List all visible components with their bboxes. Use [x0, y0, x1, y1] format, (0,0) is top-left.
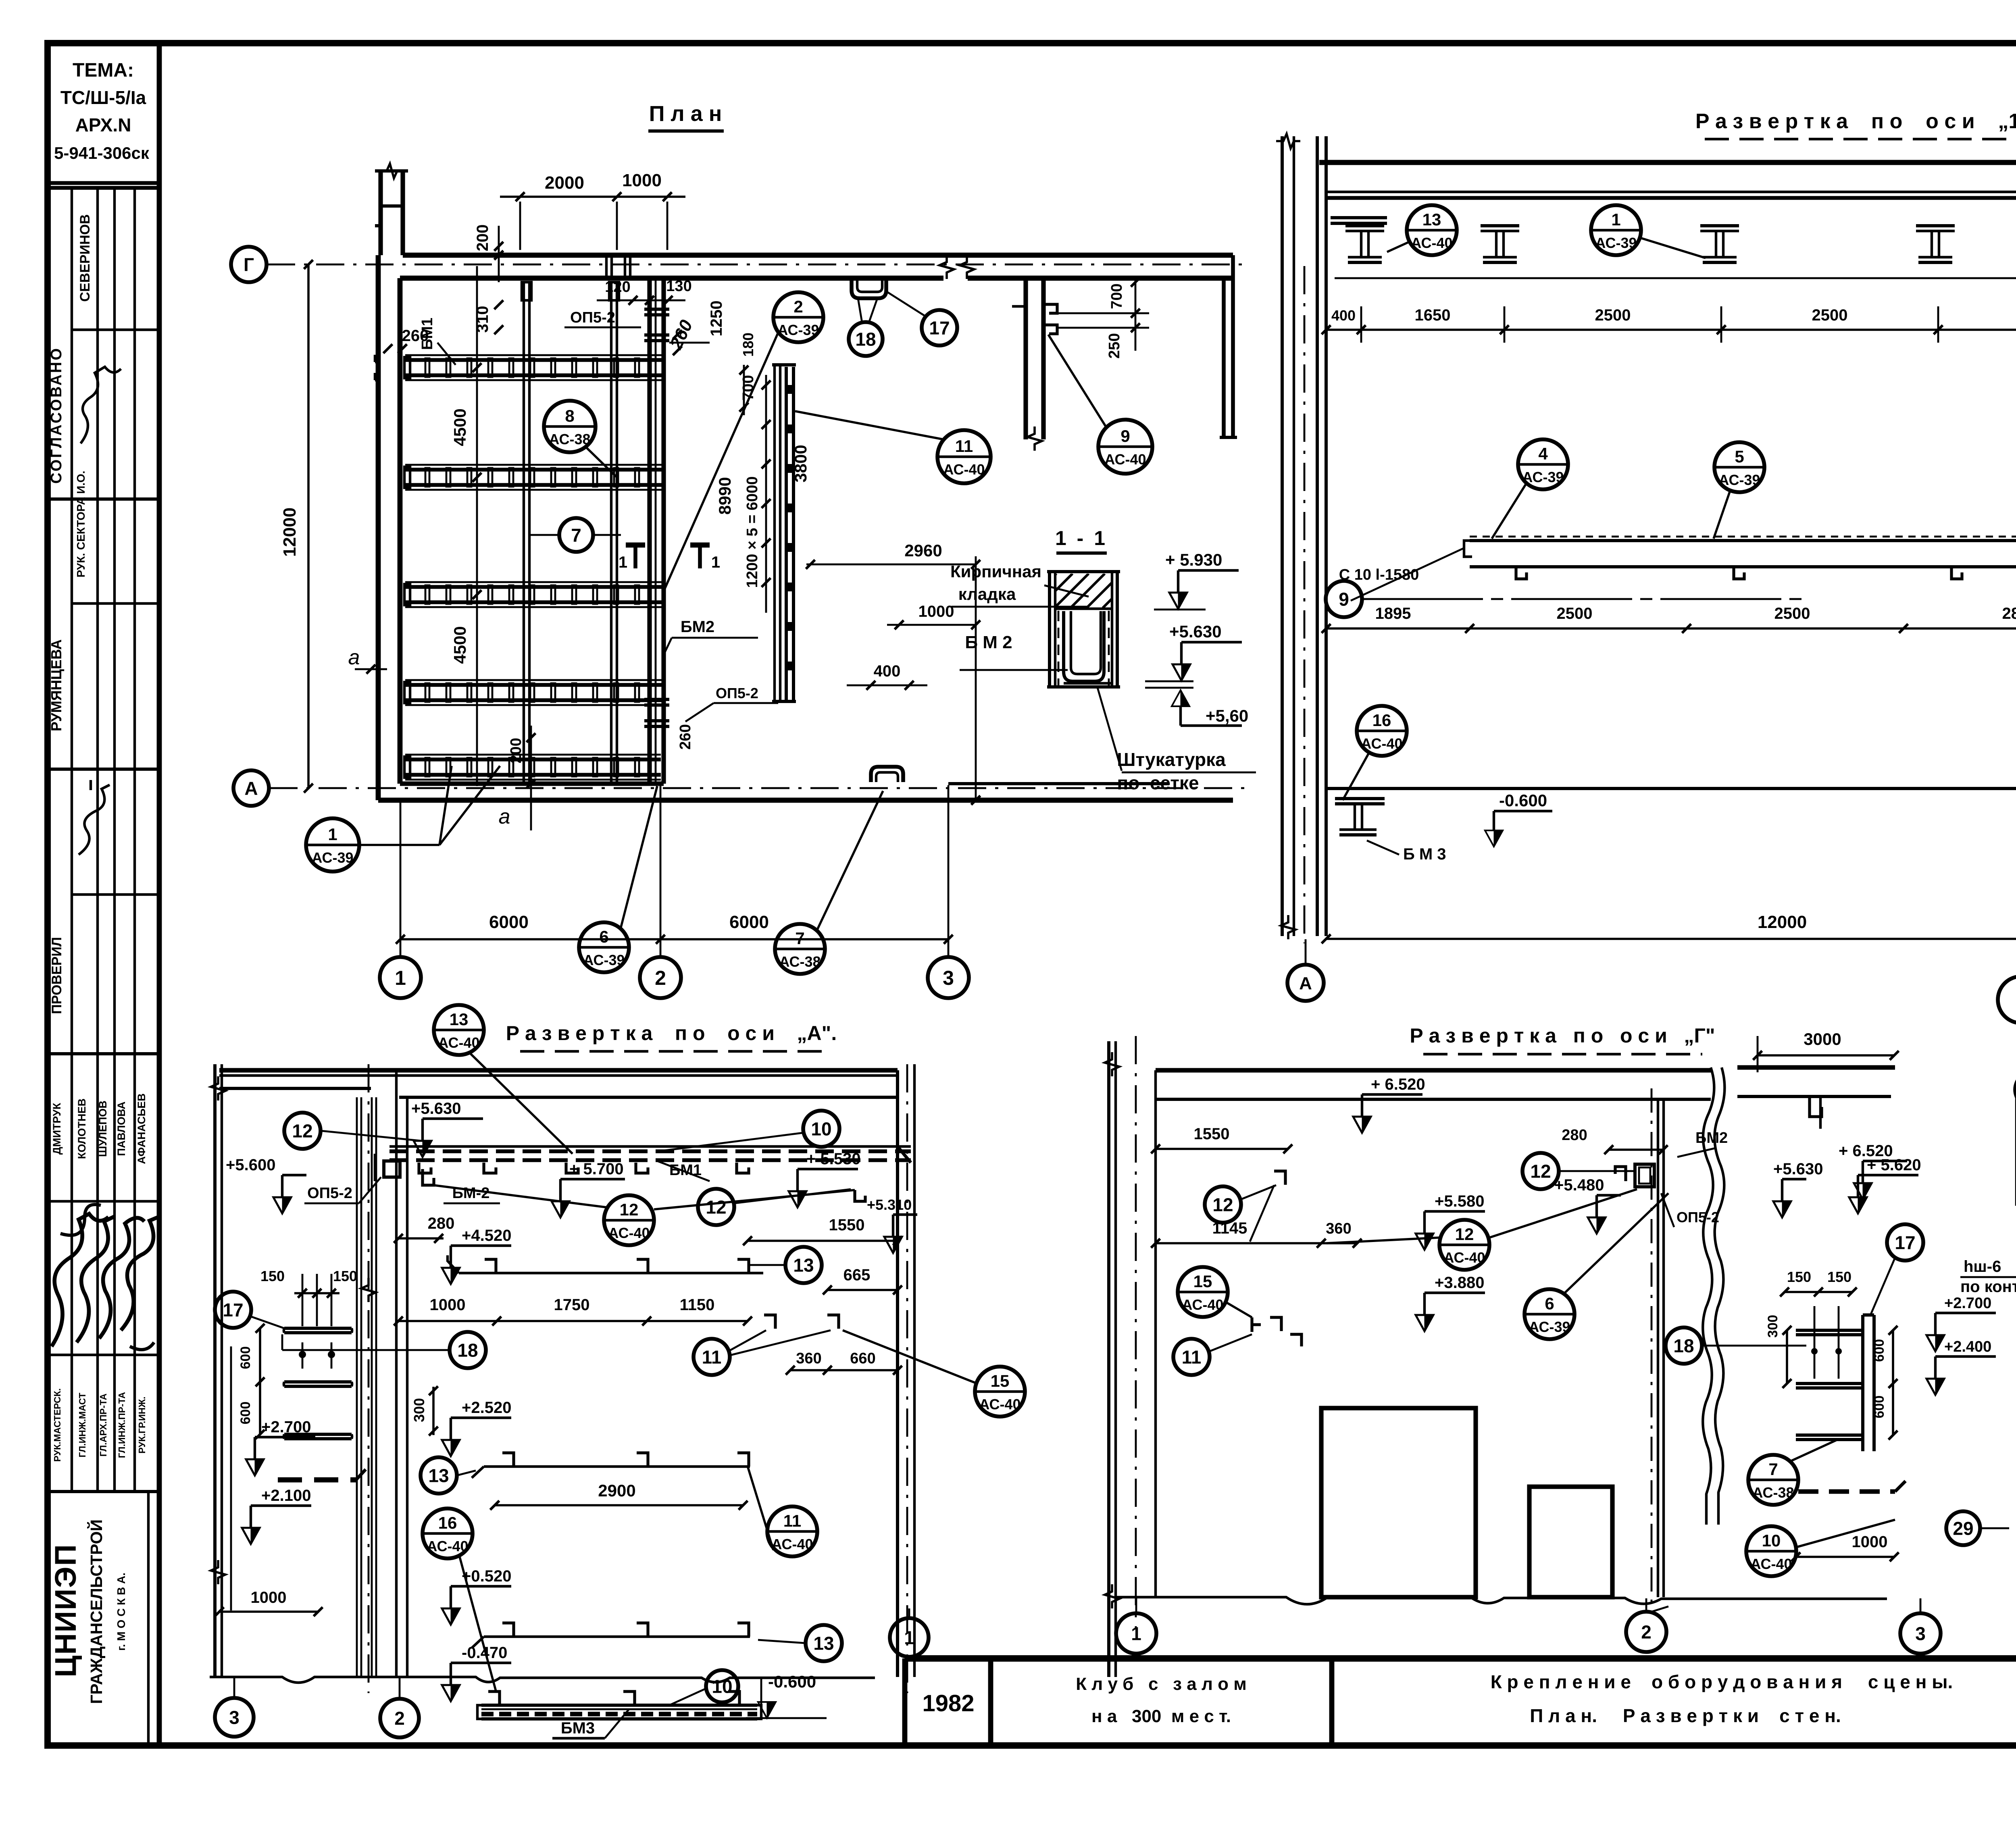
elevation-A channels row 4 — [484, 1635, 750, 1638]
svg-text:665: 665 — [843, 1266, 871, 1284]
elevation-G label circle 11 — [1173, 1339, 1210, 1375]
svg-text:5: 5 — [1735, 447, 1744, 466]
svg-text:+5.630: +5.630 — [411, 1100, 461, 1117]
plan dim 310 — [494, 300, 503, 309]
elevation-G БМ2 square — [1635, 1164, 1654, 1187]
svg-text:1895: 1895 — [1375, 605, 1411, 622]
elevation-G level +5.620 — [1849, 1197, 1867, 1213]
svg-text:+5,60: +5,60 — [1206, 706, 1248, 725]
elevation-A label circle 11 АС-40 lower — [767, 1506, 817, 1556]
svg-text:1000: 1000 — [430, 1296, 466, 1314]
elevation-1 level -0.600 — [1485, 830, 1503, 847]
plan dim 2000 1000 — [500, 196, 685, 198]
elevation-A channels row top — [423, 1169, 434, 1185]
elevation-A channels pair right — [764, 1315, 775, 1329]
svg-text:РУК. СЕКТОРА И.О.: РУК. СЕКТОРА И.О. — [75, 471, 87, 578]
svg-text:АС-40: АС-40 — [608, 1225, 650, 1241]
svg-text:Б М 3: Б М 3 — [1403, 845, 1446, 863]
svg-text:8990: 8990 — [715, 477, 734, 514]
svg-text:АС-40: АС-40 — [979, 1396, 1020, 1413]
svg-text:29: 29 — [1953, 1518, 1973, 1539]
svg-text:9: 9 — [1339, 589, 1349, 610]
svg-text:2500: 2500 — [1595, 306, 1631, 324]
elevation-A top beam lines — [219, 1068, 898, 1072]
elevation-A level +5.700 — [552, 1201, 569, 1217]
svg-text:300: 300 — [1765, 1315, 1781, 1338]
svg-text:12000: 12000 — [1758, 912, 1807, 932]
svg-text:ТС/Ш-5/Iа: ТС/Ш-5/Iа — [60, 87, 146, 108]
elevation-A dim chain 1000 1750 1150 — [398, 1320, 748, 1322]
plan grid circle 2 — [640, 957, 681, 998]
svg-text:3: 3 — [229, 1707, 240, 1728]
svg-text:ОП5-2: ОП5-2 — [716, 685, 758, 701]
elevation-A left anchor plates — [284, 1327, 352, 1330]
svg-text:ДМИТРУК: ДМИТРУК — [51, 1103, 63, 1155]
elevation-G grid circle 1 — [1116, 1613, 1156, 1654]
plan thin grid line with 4500 dims — [476, 266, 478, 786]
svg-text:15: 15 — [1193, 1272, 1212, 1291]
elevation-A level -0.470 — [442, 1685, 460, 1701]
svg-text:150: 150 — [1787, 1269, 1811, 1285]
elevation-G label circle 18 right — [1666, 1327, 1702, 1364]
elevation-A label circle 13 row2 — [785, 1247, 822, 1283]
svg-text:1: 1 — [711, 553, 720, 571]
svg-text:К р е п л е н и е о б о р у: К р е п л е н и е о б о р у д о в а н и … — [1491, 1671, 1953, 1692]
plan wall end verticals right — [1222, 278, 1226, 437]
elevation-G label circle 10 АС-40 right — [1746, 1526, 1796, 1576]
plan label circle 1 АС-39 — [306, 818, 359, 872]
svg-text:10: 10 — [1762, 1531, 1781, 1550]
plan T-wall channels — [1043, 304, 1057, 313]
elevation-A level +5.600 — [273, 1197, 291, 1213]
elevation-G label circle 17 right — [1887, 1224, 1923, 1261]
svg-text:по сетке: по сетке — [1117, 772, 1199, 793]
svg-text:1550: 1550 — [829, 1216, 865, 1234]
svg-text:1000: 1000 — [1852, 1533, 1888, 1551]
elevation-G label circle 7 АС-38 — [1748, 1455, 1798, 1505]
elevation-A label circle 18 — [450, 1332, 486, 1368]
svg-text:СЕВЕРИНОВ: СЕВЕРИНОВ — [77, 214, 93, 302]
svg-text:1: 1 — [328, 825, 337, 844]
svg-text:ОП5-2: ОП5-2 — [570, 309, 615, 326]
svg-text:1: 1 — [1611, 210, 1620, 229]
plan window ОП5-2 upper in wall 2 — [644, 308, 669, 311]
plan middle wall axis 2 — [647, 279, 652, 784]
svg-text:ЦНИИЭП: ЦНИИЭП — [49, 1544, 82, 1677]
svg-text:200: 200 — [508, 738, 525, 763]
svg-text:6: 6 — [599, 927, 608, 946]
svg-text:+2.700: +2.700 — [1944, 1295, 1991, 1312]
elevation-1 label circle 4 АС-39 — [1518, 439, 1568, 489]
svg-text:П л а н: П л а н — [649, 102, 722, 126]
elevation-A level +4.520 — [442, 1268, 460, 1284]
elevation-G level +2.700 right — [1926, 1335, 1944, 1351]
plan dim 700 250 right — [1135, 278, 1137, 351]
svg-text:АС-40: АС-40 — [1104, 451, 1146, 468]
svg-text:12: 12 — [292, 1121, 312, 1142]
svg-text:4500: 4500 — [450, 408, 469, 446]
plan axis Г line — [267, 264, 1250, 266]
plan beam row 3 — [405, 585, 662, 589]
svg-text:Штукатурка: Штукатурка — [1117, 749, 1226, 770]
svg-text:360: 360 — [1326, 1220, 1351, 1237]
elevation-1 dim 12000 — [1326, 938, 2016, 940]
elevation-A label circle 16 АС-40 lower — [423, 1508, 473, 1558]
svg-text:2500: 2500 — [1812, 306, 1848, 324]
plan U-bolt on wall Г — [852, 280, 886, 298]
svg-text:6000: 6000 — [729, 912, 769, 932]
plan label circle 17 — [922, 310, 957, 345]
svg-text:ГРАЖДАНСЕЛЬСТРОЙ: ГРАЖДАНСЕЛЬСТРОЙ — [87, 1519, 106, 1704]
section 1-1 wall outline — [1048, 572, 1051, 687]
svg-text:ОП5-2: ОП5-2 — [1677, 1209, 1719, 1225]
svg-text:ГЛ.АРХ.ПР-ТА: ГЛ.АРХ.ПР-ТА — [98, 1394, 108, 1457]
svg-text:260: 260 — [677, 724, 694, 749]
svg-text:2500: 2500 — [1557, 605, 1593, 622]
svg-text:1750: 1750 — [554, 1296, 590, 1314]
plan label circle 2 АС-39 — [773, 292, 823, 342]
plan label circle 11 АС-40 — [937, 430, 991, 483]
elevation-A label circle 15 АС-40 — [975, 1367, 1025, 1417]
elevation-A dim 600 600 vertical — [259, 1328, 261, 1434]
svg-text:+2.700: +2.700 — [261, 1418, 311, 1436]
svg-text:2960: 2960 — [904, 541, 942, 560]
svg-text:АРХ.N: АРХ.N — [75, 114, 131, 135]
elevation-1 label circle 1 АС-39 — [1591, 205, 1641, 255]
svg-text:600: 600 — [1872, 1339, 1887, 1362]
elevation-G dim 1145 360 — [1156, 1242, 1357, 1244]
svg-text:К л у б с з а л о м: К л у б с з а л о м — [1076, 1674, 1247, 1694]
svg-text:+ 6.520: + 6.520 — [1371, 1076, 1425, 1093]
svg-text:АС-38: АС-38 — [779, 953, 821, 970]
elevation-1 dim chain top — [1326, 329, 2016, 331]
svg-text:АС-40: АС-40 — [1411, 235, 1452, 251]
elevation-1 axis circle А — [1287, 965, 1324, 1001]
elevation-1 label circle 13 АС-40 — [1407, 205, 1457, 255]
svg-text:АС-39: АС-39 — [312, 849, 353, 866]
svg-text:2: 2 — [655, 967, 666, 989]
elevation-G right plates bracket — [1863, 1313, 1874, 1317]
elevation-G right beam channel and pin — [1810, 1096, 1822, 1117]
svg-text:2810: 2810 — [2002, 605, 2016, 622]
svg-text:12: 12 — [706, 1197, 726, 1218]
svg-text:12000: 12000 — [280, 508, 300, 557]
elevation-G wavy break right — [1703, 1067, 1714, 1525]
svg-text:7: 7 — [1768, 1460, 1778, 1479]
svg-text:БМ3: БМ3 — [561, 1719, 595, 1737]
section 1-1 level +5.930 — [1169, 593, 1187, 609]
svg-text:1982: 1982 — [922, 1690, 974, 1716]
svg-text:+ 5.930: + 5.930 — [1165, 550, 1222, 569]
svg-text:700: 700 — [1108, 283, 1125, 309]
svg-text:ГЛ.ИНЖ.МАСТ: ГЛ.ИНЖ.МАСТ — [77, 1393, 87, 1458]
elevation-G grid circle 2 — [1626, 1612, 1666, 1652]
elevation-A window mullion lines — [356, 1097, 358, 1677]
detail-7 big circle 7 — [1998, 976, 2016, 1023]
svg-text:АФАНАСЬЕВ: АФАНАСЬЕВ — [135, 1093, 148, 1164]
elevation-1 label circle 9 — [1326, 581, 1362, 617]
elevation-A right edge — [896, 1070, 899, 1677]
elevation-1 label circle 5 АС-39 — [1714, 442, 1764, 492]
svg-text:+ 5.700: + 5.700 — [569, 1160, 624, 1178]
svg-text:АС-40: АС-40 — [943, 461, 985, 478]
svg-text:2000: 2000 — [545, 173, 584, 193]
elevation-A window jamb — [395, 1070, 398, 1677]
svg-text:+5.630: +5.630 — [1773, 1160, 1823, 1178]
svg-text:12: 12 — [620, 1200, 639, 1219]
elevation-G level +5.580 — [1416, 1234, 1433, 1250]
svg-text:+3.880: +3.880 — [1435, 1274, 1484, 1292]
elevation-G mid window jamb — [1657, 1099, 1659, 1597]
plan label circle 6 АС-39 — [579, 922, 629, 972]
stamp grid verticals — [71, 188, 73, 1492]
svg-text:+4.520: +4.520 — [462, 1227, 511, 1244]
title block frame — [905, 1655, 2016, 1662]
elevation-1 top beam — [1319, 160, 2016, 165]
svg-text:600: 600 — [238, 1346, 253, 1369]
elevation-A label circle 12 АС-40 — [604, 1195, 654, 1245]
svg-text:13: 13 — [1422, 210, 1441, 229]
elevation-1 floor line — [1326, 787, 2016, 790]
svg-text:16: 16 — [1372, 711, 1391, 730]
svg-text:А: А — [1299, 974, 1312, 993]
plan beam row 1 — [405, 358, 662, 362]
svg-text:н а 300 м е с т.: н а 300 м е с т. — [1091, 1706, 1231, 1726]
plan top-left column stub — [378, 169, 383, 255]
plan wall along axis А — [378, 798, 1233, 803]
elevation-A grid circle 1 — [890, 1618, 929, 1657]
elevation-1 plate hangers — [1516, 567, 1527, 579]
svg-text:1145: 1145 — [1212, 1219, 1248, 1237]
svg-text:+2.400: +2.400 — [1944, 1338, 1991, 1355]
svg-text:310: 310 — [474, 306, 492, 333]
elevation-1 label circle 16 АС-40 — [1357, 706, 1407, 756]
elevation-1 left axis dash-dot — [1304, 266, 1306, 943]
svg-text:АС-38: АС-38 — [1752, 1484, 1794, 1501]
svg-text:БМ1: БМ1 — [419, 318, 436, 350]
elevation-G grid circle 3 — [1900, 1613, 1941, 1654]
svg-text:1: 1 — [619, 553, 627, 571]
svg-text:+5.630: +5.630 — [1169, 622, 1222, 641]
plan dim 700 180 — [743, 365, 745, 415]
svg-text:АС-40: АС-40 — [1182, 1296, 1223, 1313]
svg-text:8: 8 — [565, 406, 574, 425]
elevation-A label circle 13 АС-40 top — [434, 1005, 484, 1055]
svg-text:1150: 1150 — [680, 1296, 715, 1314]
plan label circle 8 АС-38 — [544, 401, 596, 452]
stamp ТЕМА box — [48, 181, 159, 185]
elevation-A label circle 11 — [694, 1339, 730, 1375]
svg-text:3: 3 — [943, 967, 954, 989]
elevation-A grid circle 2 — [380, 1699, 419, 1737]
elevation-G label circle 12 left — [1205, 1186, 1241, 1223]
svg-text:180: 180 — [740, 333, 756, 357]
svg-text:АС-39: АС-39 — [1595, 235, 1637, 251]
elevation-A channel at +5.310 — [855, 1190, 865, 1201]
svg-text:Р а з в е р т к а п о о: Р а з в е р т к а п о о с и „А". — [506, 1022, 837, 1044]
svg-text:П л а н. Р а з в е р т к и: П л а н. Р а з в е р т к и с т е н. — [1530, 1705, 1841, 1726]
svg-text:КОЛОТНЕВ: КОЛОТНЕВ — [76, 1099, 88, 1159]
plan axis А circle — [233, 770, 269, 806]
stamp grid horizontals — [72, 329, 159, 331]
elevation-A beam БМ3 bottom — [481, 1704, 757, 1707]
elevation-A level +0.520 — [442, 1608, 460, 1625]
svg-text:3000: 3000 — [1804, 1030, 1841, 1049]
plan axis Г circle — [231, 247, 267, 282]
elevation-A channels row 2 — [459, 1272, 763, 1274]
elevation-G channels pair — [1252, 1317, 1281, 1332]
plan axis А line — [269, 787, 1250, 789]
svg-text:АС-40: АС-40 — [438, 1034, 479, 1051]
svg-text:+5.580: +5.580 — [1435, 1192, 1484, 1210]
svg-text:-0.600: -0.600 — [1499, 791, 1547, 810]
svg-text:БМ2: БМ2 — [1695, 1130, 1728, 1146]
elevation-A dashed plate — [278, 1477, 356, 1483]
plan grid circle 1 — [380, 957, 421, 998]
svg-text:АС-38: АС-38 — [549, 431, 590, 447]
svg-text:РУК.ГР.ИНЖ.: РУК.ГР.ИНЖ. — [137, 1396, 147, 1453]
svg-text:400: 400 — [874, 662, 901, 680]
svg-text:2900: 2900 — [598, 1481, 635, 1500]
svg-text:+ 5.620: + 5.620 — [1867, 1156, 1921, 1174]
svg-text:АС-39: АС-39 — [777, 322, 819, 338]
elevation-G label circle 15 АС-40 — [1178, 1267, 1228, 1317]
svg-text:11: 11 — [955, 437, 973, 456]
elevation-G floor wavy line — [1117, 1597, 1887, 1604]
elevation-G channel left — [1274, 1171, 1285, 1185]
svg-text:250: 250 — [1106, 333, 1123, 358]
plan wall along axis Г — [403, 253, 1233, 258]
svg-text:280: 280 — [428, 1215, 455, 1232]
elevation-A left ext line — [230, 1346, 232, 1610]
elevation-A level +2.700 — [246, 1459, 264, 1475]
elevation-G dashed line at 7 — [1798, 1489, 1895, 1494]
svg-text:ОП5-2: ОП5-2 — [307, 1185, 352, 1202]
plan label circle 7 АС-38 — [775, 924, 825, 974]
elevation-1 I-beam hangers — [1345, 224, 1384, 227]
svg-text:1000: 1000 — [251, 1589, 287, 1606]
elevation-A label circle 12 small — [698, 1189, 734, 1225]
svg-text:600: 600 — [238, 1402, 253, 1425]
svg-text:18: 18 — [457, 1340, 478, 1361]
plan ladder element — [773, 365, 776, 701]
svg-text:по контуру: по контуру — [1960, 1278, 2016, 1296]
svg-text:10: 10 — [811, 1119, 831, 1140]
elevation-A label circle 10 right — [803, 1111, 839, 1147]
svg-text:АС-39: АС-39 — [1522, 469, 1564, 485]
section 1-1 plaster dashes — [1058, 611, 1060, 685]
svg-text:17: 17 — [223, 1300, 243, 1321]
svg-text:1 - 1: 1 - 1 — [1055, 527, 1108, 549]
plan beam row 5 — [405, 757, 661, 761]
svg-text:1550: 1550 — [1194, 1125, 1230, 1143]
svg-text:Г: Г — [244, 254, 254, 275]
elevation-G level +5.480 — [1588, 1217, 1606, 1234]
svg-text:280: 280 — [1562, 1127, 1587, 1144]
plan dim 1200x5=6000 — [765, 375, 767, 613]
stamp signature 2 — [79, 785, 110, 855]
svg-text:1200 × 5 = 6000: 1200 × 5 = 6000 — [744, 476, 761, 588]
svg-text:3: 3 — [1915, 1623, 1926, 1644]
svg-text:-0.600: -0.600 — [768, 1672, 816, 1691]
elevation-G top beam — [1156, 1068, 1711, 1072]
plan window ОП5-2 in top wall — [605, 255, 608, 279]
elevation-1 bottom beam БМ3 bracket — [1335, 797, 1385, 800]
svg-text:2500: 2500 — [1774, 605, 1810, 622]
elevation-1 dim chain middle — [1326, 627, 2016, 630]
elevation-G stage box large — [1321, 1408, 1476, 1597]
plan beam row 4 — [405, 683, 662, 687]
svg-text:12: 12 — [1455, 1225, 1474, 1244]
svg-text:А: А — [244, 778, 258, 799]
elevation-A БМ1 hanger channels — [419, 1163, 431, 1173]
svg-text:3800: 3800 — [791, 445, 810, 482]
elevation-A channels row 3 — [484, 1465, 750, 1468]
svg-text:18: 18 — [855, 329, 876, 350]
svg-text:6: 6 — [1545, 1294, 1554, 1313]
svg-text:ГЛ.ИНЖ.ПР-ТА: ГЛ.ИНЖ.ПР-ТА — [117, 1392, 127, 1458]
elevation-A label circle 12 left — [284, 1113, 321, 1149]
svg-text:150: 150 — [1827, 1269, 1851, 1285]
svg-text:18: 18 — [1673, 1336, 1694, 1356]
svg-text:2: 2 — [394, 1708, 405, 1729]
svg-text:г. М О С К В А.: г. М О С К В А. — [115, 1573, 127, 1651]
svg-text:+ 5.530: + 5.530 — [806, 1150, 861, 1168]
svg-text:2: 2 — [793, 297, 803, 316]
svg-text:12: 12 — [1212, 1194, 1233, 1215]
svg-text:1000: 1000 — [918, 603, 954, 620]
svg-text:БМ2: БМ2 — [681, 618, 714, 636]
elevation-A level +2.100 — [242, 1528, 260, 1544]
svg-text:300: 300 — [411, 1398, 427, 1422]
svg-text:120: 120 — [605, 279, 630, 295]
elevation-G channel at 12 — [1615, 1167, 1626, 1181]
plan section mark 1 right — [698, 545, 702, 568]
svg-text:4: 4 — [1538, 444, 1548, 463]
elevation-G level +6.520 right — [1854, 1183, 1872, 1199]
plan grid circle 3 — [928, 957, 969, 998]
svg-text:1: 1 — [904, 1627, 914, 1648]
elevation-A БМ3 channels — [488, 1691, 500, 1705]
elevation-A dim 150 150 — [294, 1292, 339, 1294]
svg-text:ШУЛЕПОВ: ШУЛЕПОВ — [97, 1101, 109, 1157]
svg-text:150: 150 — [260, 1268, 285, 1284]
elevation-A ОП5-2 bracket detail — [384, 1161, 400, 1177]
svg-text:130: 130 — [666, 278, 691, 295]
svg-text:13: 13 — [813, 1633, 834, 1654]
svg-text:13: 13 — [450, 1010, 469, 1029]
elevation-G label circle 12 mid — [1522, 1153, 1559, 1189]
elevation-A floor wavy line — [210, 1677, 875, 1683]
svg-text:13: 13 — [793, 1255, 814, 1276]
svg-text:200: 200 — [474, 225, 492, 252]
plan beam row 2 — [405, 468, 662, 472]
svg-text:1250: 1250 — [708, 301, 725, 337]
elevation-A label circle 13 row3 — [421, 1457, 457, 1494]
elevation-A plate bolts — [299, 1351, 306, 1358]
elevation-A level +5.630 — [414, 1141, 431, 1157]
svg-text:660: 660 — [850, 1350, 875, 1367]
svg-text:+2.100: +2.100 — [261, 1487, 311, 1504]
elevation-G label circle 12 АС-40 — [1439, 1220, 1489, 1270]
elevation-A left wall edge — [213, 1064, 217, 1677]
svg-text:АС-40: АС-40 — [427, 1538, 468, 1554]
elevation-G label circle 6 АС-39 — [1524, 1289, 1574, 1339]
elevation-A label circle 10 bottom — [706, 1670, 738, 1702]
svg-text:-0.470: -0.470 — [462, 1644, 507, 1662]
svg-text:Кирпичная: Кирпичная — [950, 562, 1041, 581]
svg-text:15: 15 — [991, 1371, 1010, 1390]
